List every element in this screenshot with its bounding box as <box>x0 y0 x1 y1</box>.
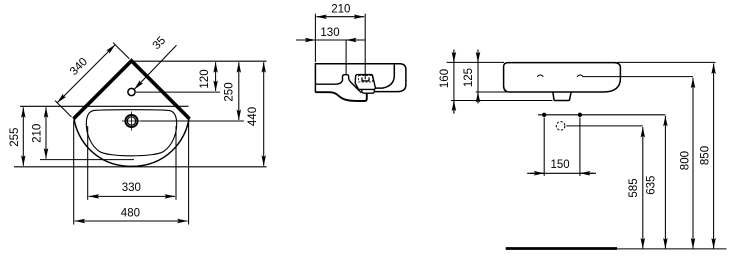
arrow 150 left <box>530 172 544 174</box>
extension line drain right <box>141 120 244 122</box>
arrow 160 bottom <box>453 101 455 114</box>
extension line apex right <box>134 60 267 62</box>
dim 210 left <box>45 107 47 158</box>
dim 120 <box>215 62 217 91</box>
dim 125 line <box>477 50 479 104</box>
svg-text:800: 800 <box>679 151 691 170</box>
wall corner V <box>74 61 190 119</box>
extension line into drain box <box>364 74 366 79</box>
fixing hole dot right <box>578 113 582 117</box>
dim 635 <box>664 116 666 249</box>
inner bowl outline <box>86 110 176 156</box>
basin profile outline <box>315 64 406 92</box>
arrow 125 bottom <box>477 92 479 103</box>
drain hole section <box>362 78 369 81</box>
inner wall right <box>376 64 395 88</box>
arrow 150 right <box>580 172 594 174</box>
svg-text:250: 250 <box>224 82 236 101</box>
dashed drain box <box>359 76 373 82</box>
floor line thick <box>506 247 617 250</box>
fixing hole dot left <box>542 113 546 117</box>
svg-text:130: 130 <box>320 27 339 39</box>
extension line basin bottom <box>476 91 510 93</box>
fixing holes line <box>538 114 665 116</box>
trap bottom sweep <box>315 92 366 101</box>
extension line 330 left <box>87 126 89 200</box>
svg-text:120: 120 <box>199 69 211 88</box>
svg-text:635: 635 <box>646 176 658 195</box>
svg-text:150: 150 <box>551 159 570 171</box>
extension line top left <box>447 61 504 63</box>
rim apron and overflow finger <box>315 75 361 93</box>
dashed drain circle <box>556 122 565 131</box>
extension line 150 left <box>543 118 545 176</box>
svg-text:255: 255 <box>9 128 21 147</box>
extension line top right <box>617 61 716 63</box>
dim 480 <box>75 220 188 222</box>
dim 150 line <box>527 172 596 174</box>
extension line bowl bottom left <box>40 159 134 161</box>
extension line face hole right <box>583 76 693 78</box>
extension line 330 right <box>175 126 177 200</box>
floor line thin <box>617 248 727 250</box>
svg-text:480: 480 <box>121 208 140 220</box>
arrow 160 top <box>453 51 455 63</box>
faucet hole <box>128 88 135 95</box>
extension line faucet hole right <box>136 91 220 93</box>
svg-text:585: 585 <box>628 178 640 197</box>
svg-text:330: 330 <box>122 182 141 194</box>
drain tab <box>553 92 571 100</box>
outer rim outline <box>74 118 189 167</box>
dim 585 <box>642 127 644 249</box>
extension line left <box>314 14 316 62</box>
face mark left <box>537 75 543 77</box>
svg-text:210: 210 <box>331 4 350 16</box>
drain centerline cross <box>122 112 141 131</box>
dim 210 top <box>316 16 364 18</box>
dim 340 extension at apex <box>113 43 129 59</box>
drain boss <box>355 75 375 90</box>
svg-text:440: 440 <box>247 107 259 126</box>
extension line tab bottom <box>451 100 553 102</box>
arrow 130 left <box>303 39 316 41</box>
extension line bowl top left <box>20 105 189 107</box>
extension line 480 right <box>188 121 190 225</box>
dim 340 line <box>57 45 115 103</box>
arrow 130 right <box>346 39 359 41</box>
extension line 150 right <box>579 118 581 176</box>
arrow 125 top <box>477 51 479 63</box>
drain lip <box>362 89 375 93</box>
dim 800 <box>692 78 694 249</box>
extension line drain right <box>566 125 643 127</box>
dim 160 line <box>453 50 455 114</box>
extension line front edge long <box>14 166 267 168</box>
dim 330 <box>89 195 175 197</box>
leader 35 <box>134 45 176 89</box>
svg-text:210: 210 <box>31 124 43 143</box>
dim 250 <box>238 62 240 120</box>
dim 850 <box>713 64 715 249</box>
extension line tap center <box>345 40 347 75</box>
drain outer circle <box>125 115 137 127</box>
extension line right to drain <box>364 14 366 74</box>
dim 440 <box>263 62 265 166</box>
svg-text:160: 160 <box>439 69 451 88</box>
extension line 480 left <box>73 121 75 225</box>
basin front outline <box>504 63 621 92</box>
drain inner circle <box>127 117 135 125</box>
svg-text:850: 850 <box>700 146 712 165</box>
dim 340 extension at wall end <box>55 101 71 117</box>
svg-text:125: 125 <box>463 68 475 87</box>
dim 130 line <box>296 39 365 41</box>
dim 255 <box>22 107 24 166</box>
face mark right <box>577 75 583 77</box>
